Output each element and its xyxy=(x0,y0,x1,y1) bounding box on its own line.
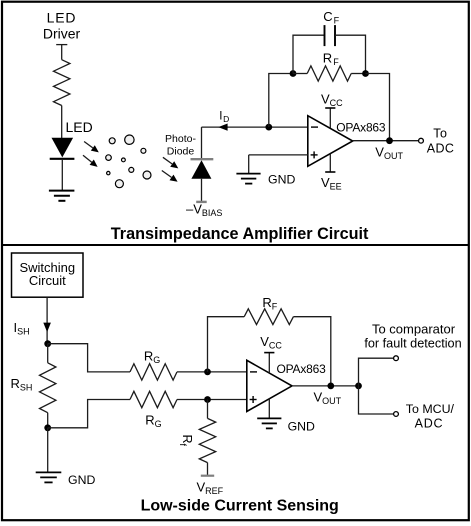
photon dots (light) xyxy=(106,135,151,188)
svg-text:To: To xyxy=(433,127,447,141)
label CF xyxy=(323,9,339,26)
wire (branch to MCU/ADC) xyxy=(359,386,394,414)
label Rf (rotated) xyxy=(178,435,194,447)
label -VBIAS xyxy=(186,201,222,218)
label ID (current) xyxy=(219,110,229,124)
wire (RSH bottom lead) xyxy=(47,413,49,428)
label VOUT (U2) xyxy=(314,389,342,406)
wire (inverting input, ID) xyxy=(202,124,308,131)
wire (feedback to output) xyxy=(366,74,390,141)
power VCC (U1) xyxy=(325,108,335,128)
wire ISH (from switching circuit) with arrow xyxy=(43,297,51,344)
label To ADC xyxy=(427,127,455,156)
label RG (lower) xyxy=(145,412,161,429)
label Photo-Diode xyxy=(165,133,196,158)
wire xyxy=(61,106,63,139)
label VCC xyxy=(321,91,343,108)
svg-text:Diode: Diode xyxy=(167,145,195,157)
node (output/feedback) xyxy=(386,137,393,144)
node (RF/CF left) xyxy=(290,70,297,77)
capacitor CF xyxy=(325,25,336,46)
wire (feedback riser from inverting node) xyxy=(208,317,245,372)
label RF (lower panel) xyxy=(262,295,277,312)
terminal to ADC (open circle) xyxy=(419,138,424,143)
light emission arrows from LED xyxy=(83,142,99,167)
title: Low-side Current Sensing xyxy=(141,497,339,514)
node (non-inverting input junction) xyxy=(204,396,211,403)
resistor RG (lower) xyxy=(130,391,177,407)
svg-text:Low-side Current Sensing: Low-side Current Sensing xyxy=(141,497,339,514)
node (RF/CF right) xyxy=(362,70,369,77)
wire (RG1 to inverting input) xyxy=(177,371,247,373)
svg-text:GND: GND xyxy=(68,473,95,487)
label LED Driver xyxy=(43,10,81,42)
svg-text:ADC: ADC xyxy=(415,416,444,430)
wire (RF left lead) xyxy=(293,73,307,75)
wire (feedback down-leg) xyxy=(269,74,293,128)
label VREF xyxy=(197,480,224,497)
power VEE (U1) xyxy=(325,154,335,172)
resistor RG (upper) xyxy=(130,364,177,380)
svg-text:OPAx863: OPAx863 xyxy=(336,120,386,134)
node (inverting input junction) xyxy=(265,124,272,131)
svg-text:GND: GND xyxy=(268,172,295,186)
svg-text:To comparator: To comparator xyxy=(372,321,456,336)
wire (to ground) xyxy=(47,428,49,473)
terminal tick (LED driver supply) xyxy=(56,44,67,46)
label GND xyxy=(268,172,295,186)
label GND (shunt) xyxy=(68,473,95,487)
wire (Rf bottom lead) xyxy=(201,463,214,476)
label ISH xyxy=(14,320,30,337)
wire xyxy=(61,45,63,60)
wire (U2 output) xyxy=(292,385,359,387)
title: Transimpedance Amplifier Circuit xyxy=(111,225,369,243)
label RG (upper) xyxy=(144,348,160,365)
node (output/feedback U2) xyxy=(327,383,334,390)
resistor Rf xyxy=(199,418,215,462)
terminal to MCU/ADC (open circle) xyxy=(394,412,399,417)
label OPAx863 (U1) xyxy=(336,120,386,134)
node (inverting input junction, lower op-amp) xyxy=(204,369,211,376)
wire (non-inverting input) xyxy=(249,154,308,156)
wire (CF branch left riser) xyxy=(293,35,324,73)
LED diode D1 xyxy=(50,138,75,191)
op-amp U2 OPAx863 xyxy=(247,360,292,411)
resistor (LED driver ballast) xyxy=(54,60,70,106)
svg-text:GND: GND xyxy=(288,420,315,434)
label OPAx863 (U2) xyxy=(277,362,327,376)
resistor RF xyxy=(307,66,351,81)
svg-text:Circuit: Circuit xyxy=(29,273,66,288)
wire (RF right lead) xyxy=(351,73,365,75)
terminal to comparator (open circle) xyxy=(394,356,399,361)
wire (CF branch right riser) xyxy=(335,35,366,73)
node (RSH top) xyxy=(44,340,51,347)
resistor RSH xyxy=(40,363,56,413)
label VCC (U2) xyxy=(260,334,282,351)
wire (RSH top lead) xyxy=(47,344,49,363)
svg-text:for fault detection: for fault detection xyxy=(364,336,461,350)
wire (feedback to output node) xyxy=(293,317,330,386)
svg-text:Photo-: Photo- xyxy=(165,133,196,145)
wire (branch to comparator) xyxy=(359,358,394,386)
ground (U2) xyxy=(257,399,281,429)
block: Switching Circuit xyxy=(12,253,84,297)
svg-text:OPAx863: OPAx863 xyxy=(277,362,327,376)
label RSH xyxy=(11,376,33,393)
label To comparator for fault detection xyxy=(364,321,461,350)
wire (RG2 to non-inverting input) xyxy=(177,399,247,401)
label To MCU/ADC xyxy=(406,402,455,431)
wire (RSH bottom to RG2) xyxy=(48,400,130,428)
op-amp U1 OPAx863 xyxy=(308,116,353,167)
svg-text:To MCU/: To MCU/ xyxy=(406,402,455,416)
label GND (U2) xyxy=(288,420,315,434)
svg-text:Transimpedance Amplifier Circu: Transimpedance Amplifier Circuit xyxy=(111,225,369,243)
label LED xyxy=(66,119,93,135)
svg-text:LED: LED xyxy=(66,119,93,135)
wire (VOUT) xyxy=(353,140,419,142)
label VEE xyxy=(321,175,342,192)
ground (LED cathode) xyxy=(49,191,75,201)
resistor RF (lower panel) xyxy=(244,309,293,325)
wire (Rf top lead) xyxy=(207,400,209,419)
svg-text:LED: LED xyxy=(47,10,77,26)
power VCC (U2) xyxy=(264,353,274,373)
node (output branch) xyxy=(355,383,362,390)
svg-text:Driver: Driver xyxy=(43,26,81,42)
node (RSH bottom) xyxy=(44,424,51,431)
label RF xyxy=(323,51,339,68)
ground (shunt) xyxy=(36,472,62,482)
svg-text:ADC: ADC xyxy=(427,141,455,155)
label VOUT xyxy=(375,144,403,161)
ground (non-inverting input) xyxy=(236,155,260,184)
light arrows into photodiode xyxy=(162,157,179,181)
photodiode D2 xyxy=(191,127,214,202)
wire (RSH top to RG1) xyxy=(48,344,130,372)
